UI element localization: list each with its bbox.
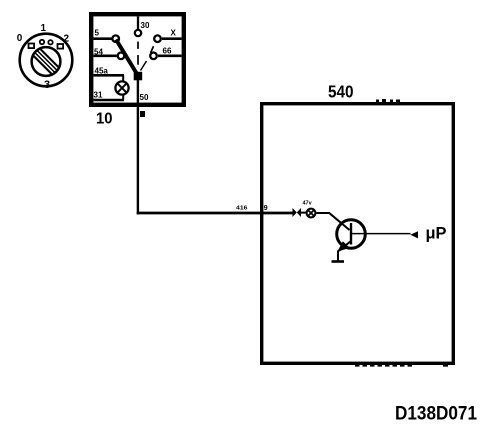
ground [332,260,345,263]
ignition key switch symbol: outer ring [20,34,73,87]
control module 540 box [262,104,454,364]
terminal 66 tick [151,46,154,53]
svg-text:47v: 47v [303,201,313,207]
diode 47v (circle-X) [307,209,316,218]
svg-text:10: 10 [96,111,113,128]
position 1 detent circles [40,40,44,44]
ignition switch box 10 [91,14,184,105]
connector bowtie on wire [293,208,297,217]
lamp (switch illumination) [115,81,128,94]
terminal 66 lead [158,54,182,57]
terminal 15 lead [94,37,112,40]
terminal X contact [154,35,161,42]
terminal 45a lead [94,74,125,77]
terminal 30 lead [137,17,139,30]
svg-text:X: X [171,29,177,38]
collector line to uP [351,233,411,235]
transistor base bar [350,223,352,245]
connector marker below box [140,111,145,117]
ignition key switch symbol: inner rotor circle [32,47,61,76]
transistor emitter with arrow [338,241,351,251]
svg-text:66: 66 [163,47,172,56]
svg-text:9: 9 [264,205,268,212]
transistor Q1 circle [337,220,366,249]
key slot diagonal stripes [31,47,60,76]
wire segment to diode [301,212,307,214]
emitter lead down [337,251,339,262]
wire: horizontal run to module 540 [137,212,293,215]
svg-text:5: 5 [95,29,100,38]
terminal 54 lead [94,54,117,57]
svg-text:3: 3 [44,79,50,91]
terminal 30 contact [135,30,141,36]
switch arm thin extension [141,61,147,71]
arrowhead to microprocessor [410,231,418,238]
terminal 15 contact [112,35,119,42]
svg-text:2: 2 [64,34,70,45]
svg-text:D138D071: D138D071 [395,403,477,425]
svg-text:540: 540 [328,82,354,102]
svg-text:416: 416 [236,205,248,211]
terminal 54 contact [118,53,125,60]
wire: terminal 50 down from box [137,80,139,214]
position 2 detent square [58,44,64,49]
wire segment from diode [316,212,329,214]
wire diagonal into transistor [329,213,350,230]
terminal 31 lead [94,99,125,102]
terminal X lead [162,37,182,40]
svg-text:30: 30 [141,21,150,30]
position 0 detent square [29,44,35,49]
pivot contact (filled) [134,72,143,81]
svg-text:1: 1 [41,23,47,34]
terminal 66 contact [150,53,157,60]
svg-text:54: 54 [94,48,103,57]
switch arm [116,40,137,75]
scan noise top edge [376,100,379,103]
svg-text:31: 31 [94,91,103,100]
svg-text:μP: μP [426,225,447,243]
svg-text:50: 50 [140,93,149,102]
dashed link 30 to pivot [137,42,139,49]
scan noise bottom edge [355,365,412,367]
svg-text:0: 0 [17,33,23,44]
